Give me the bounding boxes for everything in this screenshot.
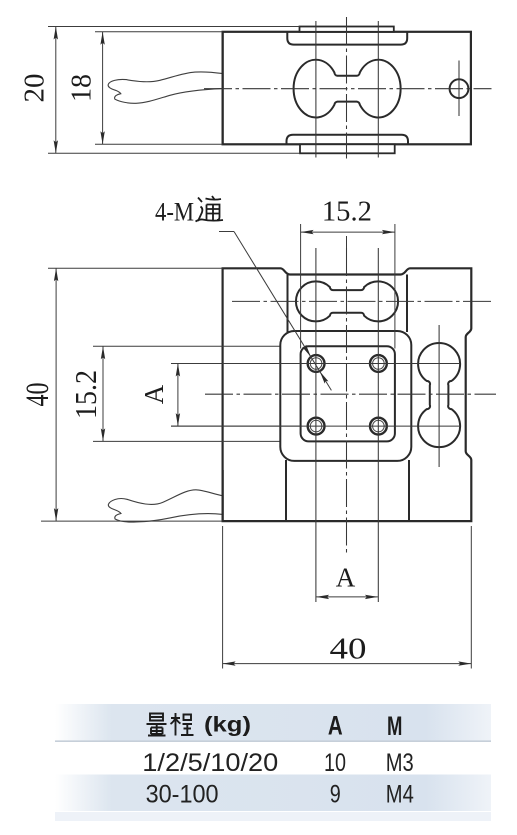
top slab plate with rounded bottom corners [287, 32, 407, 45]
vertical dash-dot main centerline of side view [346, 17, 348, 159]
arrows of dim A bottom [316, 595, 378, 599]
inner plate [301, 346, 395, 441]
dimension A left [171, 364, 300, 427]
thin vertical centerline through right holes [377, 248, 379, 602]
hole top-left [308, 355, 387, 434]
svg-text:M: M [387, 711, 402, 741]
svg-text:10: 10 [324, 749, 346, 777]
arrows of dim A left [176, 364, 180, 427]
thin horizontal line through lower holes [171, 425, 459, 427]
dimension 40 bottom [223, 526, 472, 669]
bottom slab plate with rounded top corners [287, 135, 409, 145]
glyph 通 [196, 196, 224, 222]
svg-text:1/2/5/10/20: 1/2/5/10/20 [142, 749, 278, 777]
plan body outline [223, 268, 472, 521]
main centerline stub above top dim [346, 236, 348, 248]
lower legs [285, 460, 287, 521]
dimension A bottom [316, 596, 378, 598]
horizontal dash-dot through plan top dumbbell [232, 300, 492, 302]
header underline [55, 740, 491, 742]
leader line 4-M [219, 232, 331, 391]
dimension 18 extension and dim lines [95, 32, 223, 145]
svg-text:4-M: 4-M [155, 198, 194, 227]
small circle on right of side view [450, 79, 469, 98]
vertical centerline of small right circle [458, 61, 460, 117]
upper legs [287, 275, 289, 333]
arrows of dims 20 and 18 [54, 27, 105, 154]
leader arrowheads at hole [302, 345, 328, 384]
arrows of dim 40 left [54, 268, 58, 521]
arrows of dim 15.2 top [301, 230, 395, 234]
footer faint band [55, 812, 491, 821]
svg-text:A: A [336, 563, 356, 593]
right vertical dumbbell [418, 343, 460, 447]
arrows of dim 40 bottom [223, 661, 472, 665]
plan dumbbell (top) [296, 281, 398, 321]
side view body rectangle [223, 32, 471, 145]
svg-text:30-100: 30-100 [146, 780, 219, 808]
top mounting tab [300, 27, 394, 32]
thin centerline through right lobe (side view) [377, 21, 379, 158]
svg-text:M4: M4 [386, 780, 414, 808]
main horizontal dash-dot centerline of plan view [205, 393, 496, 395]
extension lines crossing plan view (15.2 left) [93, 346, 301, 441]
re-stroke body left edge over cable [222, 32, 224, 145]
arrows of dim 15.2 left [101, 346, 105, 441]
glyph 程 [171, 713, 181, 736]
vertical centerline right dumbbell [438, 325, 440, 467]
row 2 band [55, 775, 491, 812]
svg-text:18: 18 [67, 74, 98, 102]
thin vertical centerline through left holes [315, 248, 317, 602]
svg-text:M3: M3 [386, 749, 414, 777]
svg-text:(kg): (kg) [204, 714, 251, 737]
svg-text:15.2: 15.2 [68, 370, 103, 419]
svg-text:A: A [139, 384, 169, 404]
svg-text:20: 20 [20, 74, 51, 103]
side view cable [108, 72, 223, 103]
header text 量程（kg） [147, 713, 194, 736]
dimension 20 extension and dim lines [48, 27, 300, 154]
svg-text:A: A [328, 711, 343, 741]
glyph 量 [150, 714, 163, 721]
svg-text:40: 40 [20, 383, 56, 407]
plan view cable [108, 490, 223, 522]
dimension 15.2 left [102, 346, 104, 441]
svg-text:15.2: 15.2 [322, 197, 372, 228]
thin centerline through left lobe (side view) [315, 21, 317, 158]
horizontal dash-dot centerline of side view [204, 88, 492, 90]
dimension 40 left [48, 268, 223, 521]
re-stroke plan body left edge and bottom ext line over cable [222, 470, 224, 521]
main vertical dash-dot centerline of plan view [346, 248, 348, 556]
thin horizontal line through upper holes [171, 363, 459, 365]
svg-text:40: 40 [330, 631, 367, 666]
hole top-right [370, 355, 387, 372]
header band [55, 704, 491, 741]
rounded band (outer plate) [280, 331, 411, 461]
binocular cutout (side view dumbbell) [294, 60, 401, 118]
svg-text:9: 9 [330, 780, 341, 808]
extension verticals of top 15.2 [300, 224, 302, 349]
bottom mounting tab [300, 144, 395, 153]
dimension 15.2 top [301, 231, 395, 233]
hole bottom-right [370, 418, 387, 435]
hole bottom-left [308, 418, 325, 435]
